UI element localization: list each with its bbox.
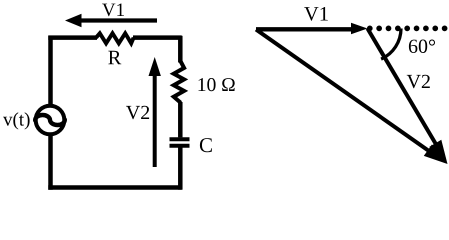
label 60deg bbox=[409, 40, 435, 54]
phasor V2 line bbox=[368, 29, 438, 147]
phasor sum arrow bbox=[256, 30, 448, 165]
phasor V1 arrow bbox=[256, 23, 368, 35]
wire left upper bbox=[48, 36, 53, 105]
wire top-left segment bbox=[48, 35, 97, 40]
wire right upper bbox=[178, 36, 183, 63]
label v(t) bbox=[3, 112, 30, 129]
wire right middle bbox=[178, 102, 183, 137]
capacitor C bbox=[170, 139, 190, 146]
arrow V2 (circuit) bbox=[149, 57, 161, 167]
resistor R bbox=[96, 33, 134, 43]
label V1 (phasor) bbox=[304, 7, 328, 21]
wire left lower bbox=[48, 135, 53, 190]
wire right lower bbox=[178, 148, 183, 190]
angle arc 60deg bbox=[381, 29, 401, 60]
wire bottom bbox=[48, 185, 181, 190]
label V2 (circuit) bbox=[126, 106, 149, 120]
arrow V1 (circuit) bbox=[65, 14, 157, 27]
label V1 (circuit) bbox=[102, 4, 124, 17]
source v(t) bbox=[35, 106, 65, 135]
resistor 10ohm bbox=[174, 62, 184, 103]
label V2 (phasor) bbox=[407, 75, 430, 89]
dotted extension line bbox=[367, 26, 448, 32]
label R bbox=[108, 51, 121, 64]
label C bbox=[200, 138, 212, 152]
label 10ohm bbox=[199, 78, 235, 91]
phasor V2 arrowhead bbox=[429, 140, 447, 164]
wire top-right segment bbox=[133, 35, 182, 40]
